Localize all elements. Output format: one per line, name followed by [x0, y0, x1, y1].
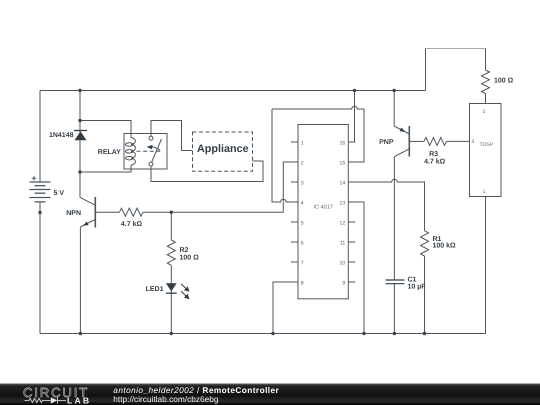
svg-text:NPN: NPN	[66, 210, 81, 217]
relay K1 box	[124, 134, 167, 170]
wire C1 to rail	[393, 284, 395, 334]
transistor Q1 NPN emitter diagonal	[80, 219, 95, 227]
resistor R2	[167, 240, 175, 265]
wire IC pin8 to ground	[273, 282, 291, 334]
wire NPN base to resistor	[95, 211, 119, 213]
svg-text:100 Ω: 100 Ω	[494, 78, 514, 85]
svg-text:4: 4	[301, 200, 304, 206]
logo resistor	[25, 398, 51, 402]
wire R3 to TOSP pin3	[447, 140, 470, 142]
NPN emitter arrowhead	[83, 222, 89, 226]
svg-text:7: 7	[301, 260, 304, 266]
wire 100ohm to TOSP pin2	[485, 94, 487, 104]
switch contact top	[149, 136, 153, 140]
svg-text:10: 10	[340, 260, 346, 266]
svg-text:http://circuitlab.com/cbz6ebg: http://circuitlab.com/cbz6ebg	[113, 394, 219, 404]
switch contact bottom	[149, 162, 153, 166]
IC right pin stubs	[348, 142, 355, 282]
svg-text:1: 1	[483, 189, 486, 195]
svg-text:11: 11	[340, 240, 345, 246]
svg-text:100 kΩ: 100 kΩ	[433, 242, 457, 250]
svg-text:Appliance: Appliance	[197, 143, 249, 155]
LED light arrow 1	[181, 284, 190, 292]
node dot rail R1	[423, 332, 426, 335]
battery plus sign	[32, 176, 36, 180]
svg-text:PNP: PNP	[379, 139, 394, 146]
relay coil	[131, 138, 135, 165]
wire relay coil bottom	[80, 165, 131, 172]
wire IC pin15 to pin4 link with hop	[272, 106, 364, 162]
wire PNP emitter from top rail	[393, 91, 395, 127]
wire relay coil top	[80, 121, 131, 138]
node dot top rail / PNP	[393, 89, 396, 92]
svg-text:9: 9	[342, 280, 345, 286]
LED light arrow 2	[181, 291, 190, 299]
wire diode branch vertical	[79, 91, 81, 198]
node dot top rail / IC16	[353, 89, 356, 92]
svg-text:LED1: LED1	[146, 286, 164, 293]
IC left pin stubs	[291, 142, 298, 282]
svg-text:4.7 kΩ: 4.7 kΩ	[121, 220, 143, 228]
svg-text:RELAY: RELAY	[98, 149, 121, 156]
node dot rail emitter	[79, 332, 82, 335]
wire IC pin4 with hop	[272, 109, 291, 202]
LED1 cathode bar	[166, 292, 177, 294]
svg-text:5: 5	[301, 220, 304, 226]
capacitor C1 plates	[386, 280, 405, 284]
svg-text:8: 8	[301, 280, 304, 286]
svg-text:1N4148: 1N4148	[49, 132, 74, 139]
IR receiver U2 TOSP box	[470, 104, 502, 197]
svg-text:TOSP: TOSP	[480, 142, 494, 148]
PNP emitter arrowhead	[400, 128, 406, 133]
wire IC pin 2	[283, 162, 291, 212]
logo diode triangle	[51, 397, 58, 403]
LED1 triangle	[166, 283, 177, 291]
transistor Q2 PNP emitter diagonal	[394, 126, 409, 134]
wire IC pin13 to ground	[348, 202, 364, 334]
svg-text:12: 12	[340, 220, 346, 226]
wire top rail	[40, 90, 426, 92]
node dot diode relay bottom	[78, 170, 81, 173]
svg-text:15: 15	[340, 160, 346, 166]
wire top-right jog to 100 ohm	[426, 49, 486, 91]
svg-text:2: 2	[483, 109, 486, 115]
transistor Q1 NPN base bar	[94, 197, 96, 228]
transistor Q2 PNP collector diagonal	[394, 149, 409, 157]
resistor 4.7k base	[120, 208, 144, 216]
diode D1 1N4148 triangle	[75, 131, 87, 140]
wire IC pin14 to R1 with hop	[348, 179, 424, 231]
wire IC pin16 to Vcc	[348, 91, 354, 143]
appliance dashed box	[193, 132, 253, 171]
relay link arrow	[151, 147, 160, 151]
svg-text:3: 3	[472, 139, 475, 145]
resistor R3	[424, 137, 447, 145]
svg-text:10 µF: 10 µF	[408, 283, 427, 290]
wire R2 to LED and rail	[170, 265, 172, 333]
node dot rail pin13	[362, 332, 365, 335]
svg-text:R2: R2	[180, 247, 189, 254]
resistor 100 ohm	[482, 70, 490, 94]
relay coil left loops	[125, 143, 133, 146]
wire TOSP pin1 to ground rail	[485, 197, 487, 334]
svg-text:IC 4017: IC 4017	[314, 204, 333, 210]
svg-text:14: 14	[340, 180, 346, 186]
node dot rail LED	[170, 332, 173, 335]
diode D1 cathode bar	[74, 130, 87, 132]
svg-text:2: 2	[301, 160, 304, 166]
wire PNP base to R3	[409, 140, 424, 142]
wire bottom rail	[40, 333, 486, 335]
wire NPN emitter to rail	[79, 227, 81, 334]
svg-text:4.7 kΩ: 4.7 kΩ	[424, 157, 446, 165]
relay link arrowhead	[147, 145, 153, 150]
wire left rail upper	[39, 91, 41, 183]
node dot rail pin8	[271, 332, 274, 335]
transistor Q2 PNP bar	[408, 126, 410, 157]
relay switch blade	[152, 139, 162, 162]
wire base node to pin2 riser	[143, 211, 283, 213]
relay link dashed	[137, 150, 161, 152]
svg-text:13: 13	[340, 200, 346, 206]
wire switch bottom to appliance return	[151, 161, 263, 182]
svg-text:LAB: LAB	[67, 395, 91, 405]
wire switch top to appliance	[151, 121, 193, 151]
svg-text:16: 16	[340, 140, 346, 146]
svg-text:3: 3	[301, 180, 304, 186]
wire R1 to rail	[424, 256, 426, 334]
node dot diode relay top	[78, 119, 81, 122]
node dot top rail / diode	[78, 89, 81, 92]
node dot battery minus	[38, 211, 41, 214]
svg-text:6: 6	[301, 240, 304, 246]
svg-text:1: 1	[301, 140, 304, 146]
wire PNP collector to C1	[393, 157, 395, 280]
transistor Q1 NPN collector diagonal	[80, 197, 95, 205]
node dot base R2	[170, 211, 173, 214]
svg-text:100 Ω: 100 Ω	[180, 255, 200, 262]
svg-text:R3: R3	[429, 151, 438, 158]
resistor R2 lead	[170, 212, 172, 240]
svg-text:5 V: 5 V	[54, 190, 65, 197]
node dot rail C1	[393, 332, 396, 335]
resistor R1	[421, 231, 429, 256]
battery B1 plates	[30, 182, 51, 202]
IC U1 4017 box	[298, 125, 348, 299]
logo diode	[58, 397, 67, 403]
wire left rail lower	[39, 202, 41, 334]
